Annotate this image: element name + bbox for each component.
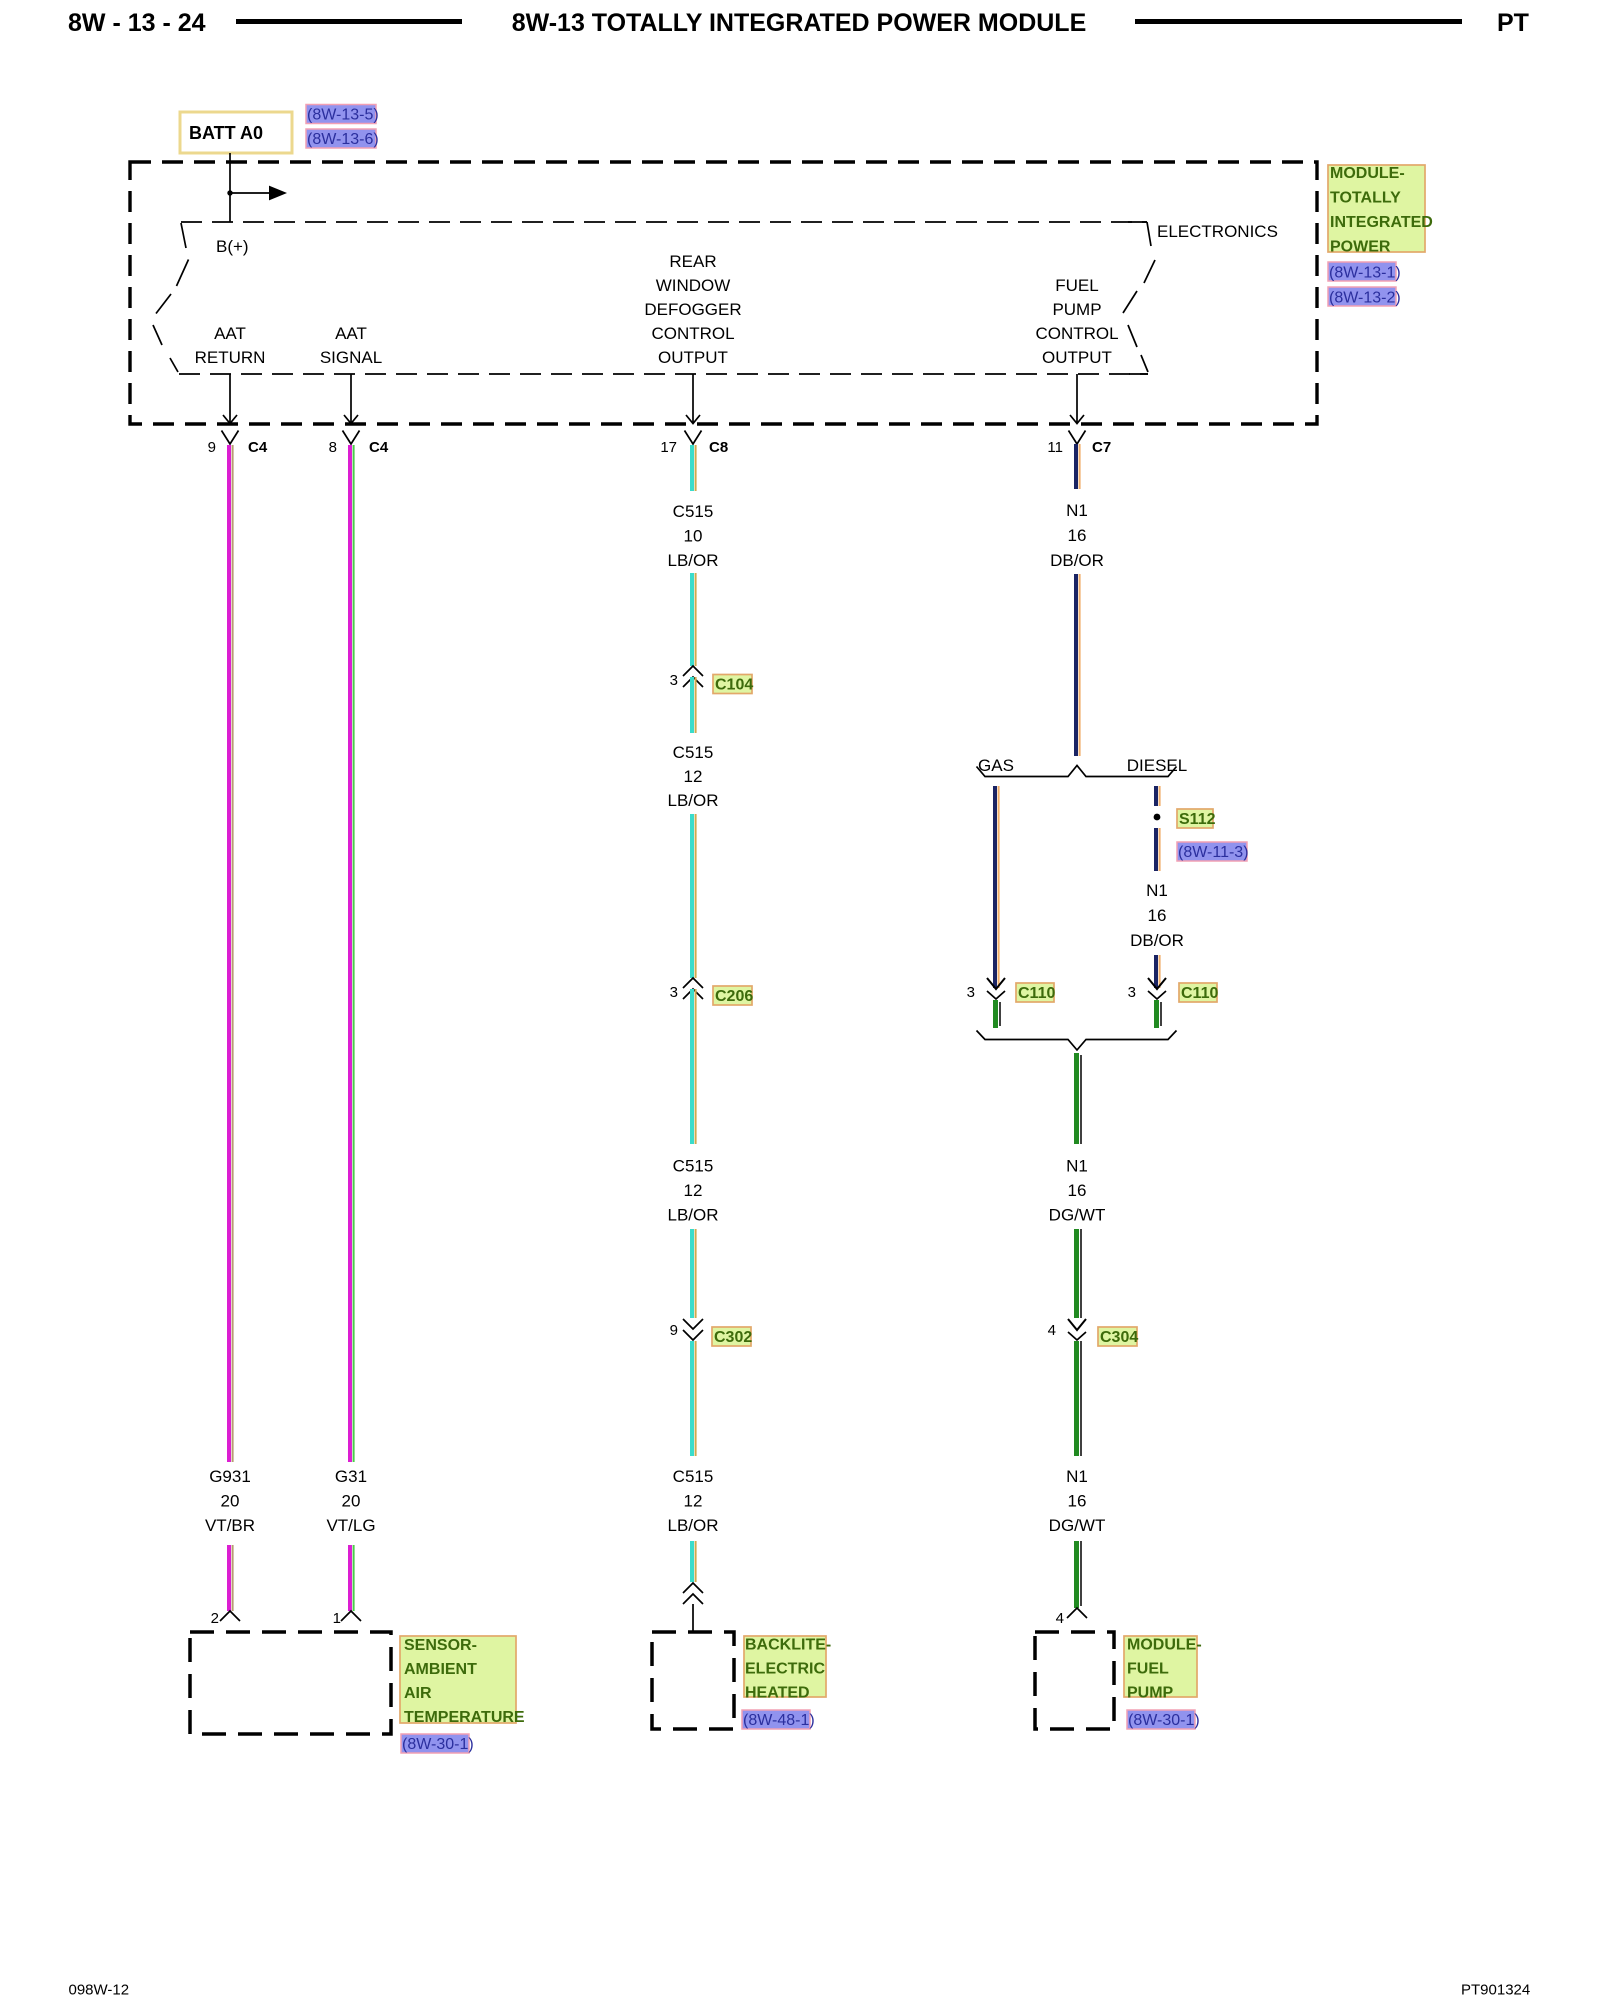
wire DG/WT segment 2 [1077, 1229, 1082, 1318]
svg-text:C104: C104 [715, 677, 753, 694]
svg-text:8: 8 [329, 439, 337, 456]
svg-text:4: 4 [1056, 1610, 1064, 1627]
label MODULE-TOTALLY INTEGRATED POWER [1328, 165, 1433, 256]
svg-text:16: 16 [1068, 526, 1087, 545]
wire LB/OR segment 3 [692, 677, 696, 733]
svg-text:C4: C4 [369, 439, 389, 456]
label SENSOR-AMBIENT AIR TEMPERATURE [400, 1636, 525, 1726]
svg-text:DG/WT: DG/WT [1049, 1516, 1106, 1535]
svg-text:12: 12 [684, 767, 703, 786]
svg-text:3: 3 [670, 672, 678, 689]
electronics inner dashed box top edge [181, 221, 1147, 223]
svg-text:TEMPERATURE: TEMPERATURE [404, 1709, 525, 1726]
svg-text:CONTROL: CONTROL [651, 324, 734, 343]
svg-text:LB/OR: LB/OR [667, 1206, 718, 1225]
svg-text:BACKLITE-: BACKLITE- [745, 1637, 831, 1654]
label C110 gas [1016, 983, 1055, 1002]
svg-text:11: 11 [1047, 439, 1063, 456]
svg-text:(8W-30-1): (8W-30-1) [1128, 1712, 1200, 1729]
svg-text:TOTALLY: TOTALLY [1330, 190, 1401, 207]
wire label C515 12 LB/OR [667, 1157, 718, 1225]
svg-text:9: 9 [208, 439, 216, 456]
wire DB/OR diesel stub [1156, 786, 1160, 806]
wire BATT A0 to B(+) [229, 153, 231, 222]
svg-text:FUEL: FUEL [1055, 276, 1098, 295]
svg-text:AIR: AIR [404, 1685, 432, 1702]
wire LB/OR segment 6 [692, 1229, 696, 1318]
wire DB/OR pin11 C7 segment 1 [1076, 444, 1080, 489]
svg-text:AAT: AAT [214, 324, 246, 343]
wire LB/OR segment 1 [692, 445, 696, 491]
wire label N1 16 DG/WT [1049, 1467, 1106, 1535]
label C206 [713, 986, 753, 1005]
svg-text:C8: C8 [709, 439, 728, 456]
label C304 [1098, 1327, 1138, 1346]
connector pin 8 C4 [343, 431, 360, 445]
svg-text:(8W-48-1): (8W-48-1) [743, 1712, 815, 1729]
wire DG/WT segment 3 [1077, 1341, 1082, 1456]
svg-text:C110: C110 [1018, 985, 1055, 1002]
connector C104 pin 3 inline [683, 666, 703, 687]
wire label G931 20 VT/BR [205, 1467, 255, 1535]
connector C110 diesel arrow [1148, 978, 1166, 989]
label C110 diesel [1179, 983, 1218, 1002]
connector pin 2 at sensor [220, 1611, 240, 1621]
svg-text:PUMP: PUMP [1052, 300, 1101, 319]
wire DG/WT merged segment 1 [1077, 1053, 1082, 1144]
brace merge [977, 1031, 1177, 1051]
svg-text:REAR: REAR [669, 252, 716, 271]
wire LB/OR segment 7 [692, 1341, 696, 1456]
wire DB/OR diesel segment 2 [1156, 828, 1160, 871]
wire DB/OR gas branch [995, 786, 999, 988]
svg-text:INTEGRATED: INTEGRATED [1330, 214, 1433, 231]
svg-text:DB/OR: DB/OR [1130, 931, 1184, 950]
svg-text:MODULE-: MODULE- [1127, 1637, 1202, 1654]
label S112 [1177, 809, 1216, 828]
svg-text:17: 17 [660, 439, 677, 456]
svg-text:OUTPUT: OUTPUT [1042, 348, 1112, 367]
connector C304 pin 4 arrow [1068, 1319, 1086, 1330]
svg-text:C515: C515 [673, 1467, 714, 1486]
svg-text:LB/OR: LB/OR [667, 551, 718, 570]
svg-text:C206: C206 [715, 988, 753, 1005]
svg-text:DB/OR: DB/OR [1050, 551, 1104, 570]
svg-text:(8W-13-5): (8W-13-5) [307, 107, 379, 124]
connector C110 gas arrow [987, 978, 1005, 989]
svg-text:C110: C110 [1181, 985, 1218, 1002]
wire label N1 16 DB/OR diesel [1130, 881, 1184, 950]
svg-text:POWER: POWER [1330, 239, 1391, 256]
wire arrow out pin 11 [1070, 374, 1084, 424]
svg-text:DG/WT: DG/WT [1049, 1206, 1106, 1225]
connector C206 pin 3 inline [683, 978, 703, 999]
reference (8W-13-2) [1328, 287, 1401, 307]
header rule left [236, 19, 462, 24]
module backlite electric heated box [652, 1632, 734, 1729]
svg-text:N1: N1 [1066, 1467, 1088, 1486]
connector pin 17 C8 [685, 431, 702, 445]
svg-text:DIESEL: DIESEL [1127, 756, 1187, 775]
wire LB/OR segment 5 [692, 989, 696, 1144]
svg-text:FUEL: FUEL [1127, 1661, 1169, 1678]
wire label N1 16 DG/WT [1049, 1157, 1106, 1225]
svg-text:LB/OR: LB/OR [667, 1516, 718, 1535]
wire VT/LG pin8 C4 upper segment [350, 445, 354, 1462]
electronics inner box left torn edge [153, 223, 189, 372]
svg-text:S112: S112 [1179, 811, 1216, 828]
svg-text:N1: N1 [1066, 1157, 1088, 1176]
svg-text:LB/OR: LB/OR [667, 791, 718, 810]
svg-text:WINDOW: WINDOW [656, 276, 731, 295]
reference (8W-13-6) [306, 129, 379, 148]
wire VT/BR pin9 C4 upper segment [229, 445, 233, 1462]
connector pin 1 at sensor [341, 1611, 361, 1621]
wire LB/OR segment 8 [692, 1541, 696, 1582]
svg-text:12: 12 [684, 1181, 703, 1200]
svg-text:MODULE-: MODULE- [1330, 165, 1405, 182]
splice S112 [1154, 814, 1161, 821]
label C302 [712, 1327, 752, 1346]
svg-text:AAT: AAT [335, 324, 367, 343]
connector C302 pin 9 inline [683, 1319, 703, 1340]
svg-text:4: 4 [1048, 1322, 1056, 1339]
svg-text:C515: C515 [673, 502, 714, 521]
svg-text:(8W-13-6): (8W-13-6) [307, 131, 379, 148]
inline connector at backlite [683, 1583, 703, 1604]
wire arrow out pin 8 [344, 374, 358, 424]
svg-text:ELECTRONICS: ELECTRONICS [1157, 222, 1278, 241]
arrow feed right [230, 192, 270, 194]
svg-text:C304: C304 [1100, 1329, 1138, 1346]
svg-text:GAS: GAS [978, 756, 1014, 775]
module fuel pump box [1035, 1632, 1114, 1729]
svg-text:3: 3 [1128, 984, 1136, 1001]
svg-text:(8W-11-3): (8W-11-3) [1178, 844, 1249, 861]
svg-text:SIGNAL: SIGNAL [320, 348, 382, 367]
svg-text:VT/BR: VT/BR [205, 1516, 255, 1535]
svg-text:(8W-13-1): (8W-13-1) [1329, 265, 1401, 282]
svg-text:C302: C302 [714, 1329, 752, 1346]
svg-text:C515: C515 [673, 743, 714, 762]
svg-text:N1: N1 [1066, 501, 1088, 520]
svg-text:2: 2 [211, 1610, 219, 1627]
wire label N1 16 DB/OR [1050, 501, 1104, 570]
svg-text:PT901324: PT901324 [1461, 1982, 1530, 1999]
connector pin 11 C7 [1069, 431, 1086, 445]
svg-text:BATT A0: BATT A0 [189, 123, 263, 143]
svg-text:8W - 13 - 24: 8W - 13 - 24 [68, 9, 206, 37]
svg-text:16: 16 [1068, 1181, 1087, 1200]
svg-text:10: 10 [684, 527, 703, 546]
svg-text:20: 20 [221, 1492, 240, 1511]
wire LB/OR segment 4 [692, 814, 696, 978]
reference (8W-13-5) [306, 105, 379, 124]
wire VT/LG lower segment [350, 1545, 354, 1611]
electronics inner box right torn edge [1123, 222, 1155, 374]
svg-text:AMBIENT: AMBIENT [404, 1661, 477, 1678]
module sensor ambient air temperature box [190, 1632, 391, 1734]
fuse BATT A0 [180, 112, 292, 153]
wire arrow out pin 17 [686, 374, 700, 424]
connector pin 4 at fuel pump module [1067, 1608, 1087, 1618]
label MODULE-FUEL PUMP [1124, 1636, 1202, 1702]
header rule right [1135, 19, 1462, 24]
svg-text:3: 3 [670, 984, 678, 1001]
svg-text:ELECTRIC: ELECTRIC [745, 1661, 825, 1678]
wire DG/WT segment 4 [1077, 1541, 1082, 1608]
wire backlite lead [692, 1604, 694, 1632]
svg-text:16: 16 [1068, 1492, 1087, 1511]
wire label C515 12 LB/OR [667, 1467, 718, 1535]
svg-text:N1: N1 [1146, 881, 1168, 900]
svg-text:9: 9 [670, 1322, 678, 1339]
svg-text:DEFOGGER: DEFOGGER [644, 300, 741, 319]
svg-text:PUMP: PUMP [1127, 1685, 1174, 1702]
svg-text:G31: G31 [335, 1467, 367, 1486]
svg-text:(8W-30-1): (8W-30-1) [402, 1736, 474, 1753]
svg-text:C4: C4 [248, 439, 268, 456]
wire arrow out pin 9 [223, 374, 237, 424]
reference (8W-30-1) sensor [401, 1734, 474, 1753]
wire label C515 10 LB/OR [667, 502, 718, 570]
wire DB/OR diesel segment 3 [1156, 955, 1160, 988]
svg-text:OUTPUT: OUTPUT [658, 348, 728, 367]
svg-text:C7: C7 [1092, 439, 1111, 456]
svg-text:VT/LG: VT/LG [326, 1516, 375, 1535]
label BACKLITE-ELECTRIC HEATED [744, 1636, 831, 1702]
svg-text:G931: G931 [209, 1467, 251, 1486]
svg-text:098W-12: 098W-12 [69, 1982, 130, 1999]
brace split GAS/DIESEL [977, 766, 1177, 777]
reference (8W-13-1) [1328, 262, 1401, 282]
svg-text:SENSOR-: SENSOR- [404, 1637, 477, 1654]
junction dot [227, 190, 232, 195]
svg-text:RETURN: RETURN [195, 348, 266, 367]
svg-text:3: 3 [967, 984, 975, 1001]
svg-text:C515: C515 [673, 1157, 714, 1176]
reference (8W-30-1) fuel pump [1127, 1710, 1200, 1729]
wire label G31 20 VT/LG [326, 1467, 375, 1535]
svg-text:8W-13 TOTALLY INTEGRATED POWER: 8W-13 TOTALLY INTEGRATED POWER MODULE [512, 9, 1087, 37]
svg-text:12: 12 [684, 1492, 703, 1511]
wire DB/OR segment 2 [1076, 574, 1080, 756]
wire label C515 12 LB/OR [667, 743, 718, 810]
wire VT/BR lower segment [229, 1545, 233, 1611]
electronics inner dashed box bottom edge [179, 373, 1148, 375]
svg-text:16: 16 [1148, 906, 1167, 925]
connector pin 9 C4 [222, 431, 239, 445]
svg-text:20: 20 [342, 1492, 361, 1511]
reference (8W-11-3) [1177, 842, 1249, 861]
wire LB/OR segment 2 [692, 573, 696, 666]
wire DG/WT gas stub [996, 1000, 1001, 1028]
svg-text:B(+): B(+) [216, 237, 249, 256]
wire DG/WT diesel stub [1157, 1000, 1162, 1028]
module TIPM outer dashed box [130, 162, 1317, 424]
svg-text:(8W-13-2): (8W-13-2) [1329, 290, 1401, 307]
svg-text:CONTROL: CONTROL [1035, 324, 1118, 343]
svg-text:PT: PT [1497, 9, 1529, 37]
svg-text:HEATED: HEATED [745, 1685, 810, 1702]
reference (8W-48-1) [742, 1710, 815, 1729]
svg-text:1: 1 [333, 1610, 341, 1627]
label C104 [713, 675, 753, 694]
